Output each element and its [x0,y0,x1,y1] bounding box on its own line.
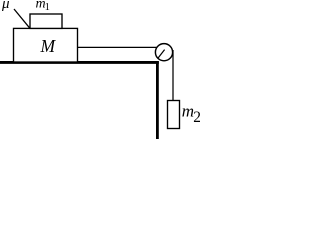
svg-text:M: M [40,36,57,56]
svg-text:μ: μ [1,0,10,12]
svg-text:1: 1 [45,2,50,13]
svg-text:2: 2 [193,109,200,126]
